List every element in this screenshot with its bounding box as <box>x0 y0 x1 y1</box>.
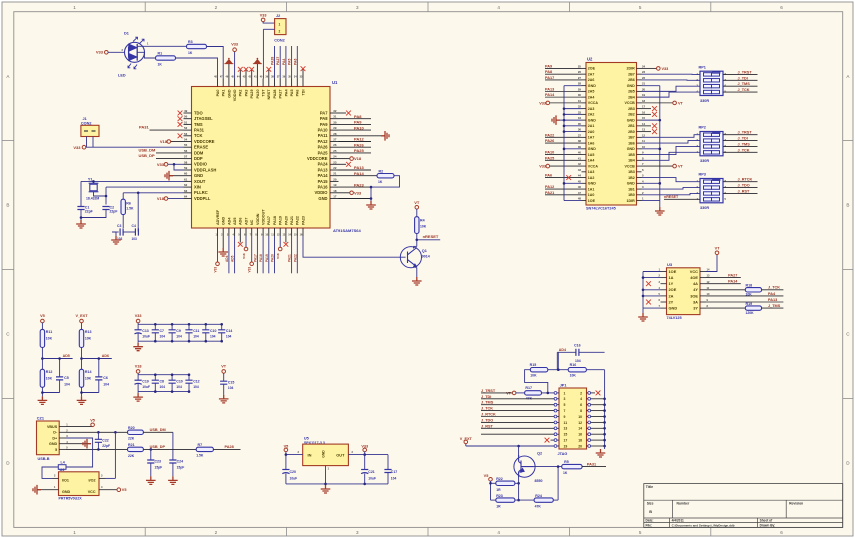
svg-text:GND: GND <box>588 118 596 122</box>
svg-text:31: 31 <box>578 99 582 103</box>
svg-text:53: 53 <box>184 132 188 136</box>
wire net PA13 <box>339 169 372 171</box>
svg-text:ADVREF: ADVREF <box>216 209 220 225</box>
svg-text:104: 104 <box>226 335 232 339</box>
svg-text:330R: 330R <box>700 206 709 210</box>
svg-text:25: 25 <box>333 149 337 153</box>
svg-text:PA17: PA17 <box>267 216 271 225</box>
svg-text:2OE: 2OE <box>669 287 677 292</box>
svg-text:J_TDI: J_TDI <box>738 76 748 80</box>
svg-text:TDI: TDI <box>301 90 305 96</box>
svg-text:DDP: DDP <box>194 156 203 161</box>
svg-text:29: 29 <box>578 87 582 91</box>
svg-text:PRTR5V0U2X: PRTR5V0U2X <box>59 497 83 501</box>
wire CZ1 row3 to L4 <box>66 438 93 467</box>
frame column ticks and labels <box>144 2 146 12</box>
ground at U1 PA11 <box>339 135 382 137</box>
wire net AD5 <box>41 348 43 370</box>
no-connect X at U1 PA7 <box>339 112 347 114</box>
svg-text:RP1: RP1 <box>699 65 706 69</box>
svg-text:2B5: 2B5 <box>628 90 635 94</box>
svg-text:C13: C13 <box>142 329 148 333</box>
svg-text:28: 28 <box>333 132 337 136</box>
resistor R18 10K <box>745 288 761 292</box>
wire stubs U1 top pins 11-15 nets PA28 PA27 PA4 PA5 PA6 <box>274 46 276 79</box>
svg-text:V33: V33 <box>73 145 81 150</box>
ground below Q1 <box>412 277 422 285</box>
svg-text:103: 103 <box>132 237 138 241</box>
wire CZ1 D+ row <box>66 448 128 450</box>
svg-text:10K: 10K <box>46 377 53 381</box>
svg-text:VT: VT <box>506 391 512 395</box>
wire net USB_DM at R20 <box>143 431 173 433</box>
svg-text:RP2: RP2 <box>699 126 706 130</box>
svg-text:GND: GND <box>588 84 596 88</box>
resistor R23 1R <box>491 499 496 501</box>
svg-text:22pF: 22pF <box>102 444 110 448</box>
svg-text:330R: 330R <box>700 99 709 103</box>
svg-text:1K: 1K <box>378 180 383 184</box>
svg-text:21: 21 <box>642 82 646 86</box>
svg-text:R7: R7 <box>198 443 203 447</box>
svg-text:19: 19 <box>642 93 646 97</box>
no-connect X U1 top pin 16 <box>302 70 304 79</box>
svg-text:2DIR: 2DIR <box>626 67 635 71</box>
svg-text:61: 61 <box>184 177 188 181</box>
power port V18 at U1 VDDCORE <box>171 141 184 143</box>
resistor R4 10K <box>415 217 419 234</box>
wire divider bottom <box>81 387 83 396</box>
svg-text:10uF: 10uF <box>290 476 298 480</box>
svg-text:D+: D+ <box>52 436 57 440</box>
svg-text:PA22: PA22 <box>293 254 297 262</box>
svg-text:3Y: 3Y <box>693 306 698 311</box>
svg-text:120K: 120K <box>746 311 755 315</box>
svg-text:1B3: 1B3 <box>628 170 635 174</box>
svg-text:6: 6 <box>580 403 582 407</box>
svg-text:47: 47 <box>578 191 582 195</box>
svg-text:12: 12 <box>642 133 646 137</box>
wire R16 right to JP1 rail <box>586 369 604 371</box>
wire net J_TCK <box>762 289 784 291</box>
wire net nRESET <box>416 234 418 247</box>
wires RP1 outputs <box>723 73 758 75</box>
svg-text:CON2: CON2 <box>274 39 285 43</box>
svg-text:GND: GND <box>222 216 226 225</box>
frame row ticks and labels <box>2 140 14 142</box>
svg-text:1A: 1A <box>669 275 674 280</box>
svg-text:PA4: PA4 <box>284 89 288 97</box>
svg-text:1K: 1K <box>188 51 193 55</box>
svg-text:VCCA: VCCA <box>588 164 599 168</box>
wire U1 pin7 to port V33 <box>251 236 253 262</box>
svg-text:9: 9 <box>564 415 566 419</box>
svg-text:GND: GND <box>588 182 596 186</box>
svg-text:R18: R18 <box>746 284 753 288</box>
svg-text:J_TDO: J_TDO <box>481 418 493 422</box>
svg-text:VDDOUT: VDDOUT <box>262 209 266 225</box>
svg-text:V_EXT: V_EXT <box>75 314 88 318</box>
svg-text:2A0: 2A0 <box>588 130 595 134</box>
svg-text:32: 32 <box>333 109 337 113</box>
svg-text:18.432M: 18.432M <box>86 196 99 200</box>
svg-text:22pF: 22pF <box>110 210 118 214</box>
svg-text:2A: 2A <box>669 293 674 298</box>
ground below U2 right rail <box>655 207 665 215</box>
svg-text:B: B <box>846 203 849 208</box>
svg-text:PA9: PA9 <box>354 120 362 125</box>
svg-text:Sheet of: Sheet of <box>760 519 774 523</box>
svg-text:V33: V33 <box>248 267 252 273</box>
no-connect X at U2 pin 43 <box>566 175 571 180</box>
svg-text:PA13: PA13 <box>354 165 364 170</box>
capacitor C17 104 <box>387 455 389 470</box>
svg-text:PA8: PA8 <box>545 70 552 74</box>
svg-text:4/4/2011: 4/4/2011 <box>672 519 684 523</box>
resistor R3 1K <box>187 44 207 48</box>
svg-text:PA14: PA14 <box>318 173 329 178</box>
wires nets PA12 PA26 PA25 <box>339 141 372 143</box>
no-connect X marks U2 right pins <box>642 108 652 110</box>
svg-text:50: 50 <box>184 115 188 119</box>
svg-text:1: 1 <box>279 23 281 27</box>
svg-text:3A: 3A <box>693 299 698 304</box>
svg-text:TDO: TDO <box>194 110 203 115</box>
svg-text:13: 13 <box>564 427 568 431</box>
svg-text:PA29: PA29 <box>250 90 254 99</box>
svg-text:VT: VT <box>414 200 420 205</box>
resistor R6 1.5K <box>121 199 125 214</box>
svg-text:C14: C14 <box>226 329 232 333</box>
wire R1 to U1 pin 47 <box>176 58 218 79</box>
svg-text:Q2: Q2 <box>537 451 542 455</box>
svg-text:PA27: PA27 <box>279 90 283 99</box>
svg-text:2A6: 2A6 <box>588 78 595 82</box>
svg-text:39: 39 <box>578 145 582 149</box>
svg-text:1Y: 1Y <box>669 281 674 286</box>
svg-text:VCCA: VCCA <box>588 101 599 105</box>
svg-text:104: 104 <box>160 385 166 389</box>
svg-text:GND: GND <box>627 147 635 151</box>
svg-text:Y1: Y1 <box>88 178 93 182</box>
svg-text:2A7: 2A7 <box>588 72 595 76</box>
wire U1 bottom pin 16 to Q1 base <box>303 236 406 257</box>
svg-text:GND: GND <box>318 196 327 201</box>
svg-text:9014: 9014 <box>422 255 430 259</box>
svg-text:V33: V33 <box>260 13 267 17</box>
wire net PA4 at U3 3OE <box>706 295 783 297</box>
svg-text:16: 16 <box>642 110 646 114</box>
capacitor C9 104 <box>171 324 173 329</box>
svg-text:4OE: 4OE <box>690 275 698 280</box>
svg-text:AT91SAM7S64: AT91SAM7S64 <box>333 228 361 233</box>
svg-text:PA27: PA27 <box>728 274 737 278</box>
resistor R20 22K <box>128 430 144 434</box>
wire R17 to JP1 pin1 <box>542 392 555 394</box>
capacitor C19 10uF <box>137 375 139 380</box>
svg-text:V33: V33 <box>361 444 368 448</box>
svg-text:41: 41 <box>578 156 582 160</box>
svg-text:1: 1 <box>73 530 76 535</box>
svg-text:10uF: 10uF <box>142 335 150 339</box>
svg-text:J_TCK: J_TCK <box>738 88 750 92</box>
svg-text:1R: 1R <box>496 488 501 492</box>
svg-text:USB_DM: USB_DM <box>150 428 166 432</box>
svg-text:22: 22 <box>333 166 337 170</box>
power port V33 at U1 VDDIO pin 18 <box>339 192 351 194</box>
svg-text:PLLRC: PLLRC <box>194 190 208 195</box>
wire U4 I/O2 up to USB_DM row <box>105 477 115 479</box>
U2 left ground rail <box>563 86 565 201</box>
svg-text:VT: VT <box>678 165 684 169</box>
wire net PA14 to R2 <box>339 175 378 177</box>
svg-text:J_RST: J_RST <box>481 424 493 428</box>
svg-text:R3: R3 <box>188 40 193 44</box>
capacitor C2 22pF <box>102 207 109 210</box>
svg-text:104: 104 <box>176 385 182 389</box>
svg-text:R23: R23 <box>496 494 503 498</box>
svg-text:IN: IN <box>308 452 312 457</box>
svg-text:27: 27 <box>578 76 582 80</box>
svg-text:5: 5 <box>55 448 57 452</box>
JP1 right rail to even pins <box>604 370 606 446</box>
svg-text:V5: V5 <box>40 314 45 318</box>
op-amp U1 body AT91SAM7S64 <box>192 87 331 229</box>
svg-text:33: 33 <box>578 110 582 114</box>
svg-text:24: 24 <box>642 65 646 69</box>
svg-text:2B6: 2B6 <box>628 78 635 82</box>
svg-text:PA17: PA17 <box>253 254 257 262</box>
svg-text:PA1: PA1 <box>222 90 226 97</box>
ground at U4 GND <box>37 489 53 491</box>
svg-text:PA5: PA5 <box>288 59 292 65</box>
svg-text:3: 3 <box>356 530 359 535</box>
resistor R14 10K <box>79 369 83 387</box>
wire net PA27 <box>706 277 741 279</box>
svg-text:Number: Number <box>677 501 690 505</box>
U1 right pin stubs with numbers <box>330 112 339 114</box>
svg-text:NRST: NRST <box>267 89 271 100</box>
svg-text:J_RTCK: J_RTCK <box>481 413 496 417</box>
wire Q1 collector <box>413 246 415 248</box>
svg-text:AD5: AD5 <box>231 255 235 262</box>
no-connect X U1 top pin 10 <box>268 70 270 79</box>
svg-text:PA2: PA2 <box>239 90 243 97</box>
svg-text:PA26: PA26 <box>354 142 364 147</box>
svg-text:OUT: OUT <box>336 452 345 457</box>
svg-text:Revision: Revision <box>789 501 803 505</box>
svg-text:VDDCORE: VDDCORE <box>307 156 328 161</box>
svg-text:PA6: PA6 <box>545 174 552 178</box>
svg-text:J_TDO: J_TDO <box>738 184 750 188</box>
wire CZ1 D- row <box>66 431 128 433</box>
svg-text:1B6: 1B6 <box>628 141 635 145</box>
power port VT at U2 VCCB pin 18 <box>642 102 673 104</box>
svg-text:C15: C15 <box>228 380 234 384</box>
svg-text:VCCB: VCCB <box>625 164 636 168</box>
svg-text:R1: R1 <box>158 52 163 56</box>
resistor R1 1K <box>156 56 176 60</box>
svg-text:AD4: AD4 <box>225 255 229 262</box>
wire USB_DP down to C23 <box>150 449 152 460</box>
svg-text:15: 15 <box>642 116 646 120</box>
capacitor C23 15pF <box>147 460 154 463</box>
svg-text:4: 4 <box>497 530 500 535</box>
wire net PA23 <box>339 186 372 188</box>
svg-text:2A2: 2A2 <box>588 113 595 117</box>
svg-text:31: 31 <box>333 115 337 119</box>
svg-text:10K: 10K <box>530 373 537 377</box>
svg-text:1A2: 1A2 <box>588 176 595 180</box>
svg-text:57: 57 <box>184 155 188 159</box>
svg-text:1DIR: 1DIR <box>626 199 635 203</box>
wire U5 ground rail <box>286 483 388 485</box>
power port VT at U3 VCC <box>706 255 717 272</box>
svg-text:20: 20 <box>333 177 337 181</box>
svg-text:GND: GND <box>627 182 635 186</box>
svg-text:43: 43 <box>578 168 582 172</box>
svg-text:R6: R6 <box>126 201 131 205</box>
svg-text:62: 62 <box>184 183 188 187</box>
wires RP2 inputs from U2 <box>642 135 701 138</box>
capacitor C10 104 <box>205 324 207 329</box>
svg-text:V33: V33 <box>135 314 142 318</box>
capacitor C7 104 <box>154 324 156 329</box>
ground below C3 C4 <box>112 232 116 236</box>
svg-text:VDDCORE: VDDCORE <box>194 139 215 144</box>
svg-text:2A1: 2A1 <box>588 124 595 128</box>
svg-text:37: 37 <box>578 133 582 137</box>
svg-text:Title: Title <box>646 485 653 489</box>
resistor R17 47K <box>525 391 542 395</box>
svg-text:C22: C22 <box>102 438 108 442</box>
svg-text:104: 104 <box>193 335 199 339</box>
ground below C24 <box>168 476 178 484</box>
svg-text:GND: GND <box>62 490 71 494</box>
svg-text:PA10: PA10 <box>545 151 554 155</box>
svg-text:PA31: PA31 <box>587 462 596 466</box>
svg-text:J2: J2 <box>276 14 280 18</box>
ground at U1 pin 2 <box>222 236 224 248</box>
power port V18 at U1 VDDCORE pin 24 <box>339 158 351 160</box>
power port V18 U1 pin 6 <box>245 236 247 247</box>
svg-text:26: 26 <box>578 70 582 74</box>
wires RP2 outputs <box>723 134 758 136</box>
svg-text:PA24: PA24 <box>318 162 329 167</box>
capacitor C20 10uF <box>285 455 287 470</box>
svg-text:25: 25 <box>578 65 582 69</box>
svg-text:15: 15 <box>564 433 568 437</box>
svg-text:1K: 1K <box>563 471 568 475</box>
svg-text:1OE: 1OE <box>669 269 677 274</box>
svg-text:PA7: PA7 <box>320 110 328 115</box>
ground below U1 right <box>366 201 376 209</box>
svg-text:4Y: 4Y <box>693 287 698 292</box>
svg-text:VCC: VCC <box>690 269 698 274</box>
svg-text:7: 7 <box>564 409 566 413</box>
svg-text:C19: C19 <box>142 379 148 383</box>
wire R2 loop to PA16 row <box>371 176 400 187</box>
resistor R19 120K <box>745 306 761 310</box>
U3 left ground rail <box>642 272 644 309</box>
svg-text:J_TCK: J_TCK <box>768 286 780 290</box>
svg-text:R20: R20 <box>128 426 135 430</box>
svg-text:R16: R16 <box>570 363 577 367</box>
wire net PA28 at R7 <box>213 448 240 450</box>
svg-text:PA10: PA10 <box>354 125 364 130</box>
wire net PA31 at R5 <box>582 466 606 468</box>
svg-text:GND: GND <box>669 306 678 311</box>
power port V5 at CZ1 VBUS <box>66 426 93 428</box>
svg-text:V18: V18 <box>354 156 362 161</box>
svg-text:2Y: 2Y <box>669 299 674 304</box>
svg-text:Size: Size <box>647 501 654 505</box>
wire U1 top pin 9 to connector J2 <box>262 29 264 78</box>
power port V33 at U2 VCCA pin 42 <box>550 165 582 167</box>
power flag on U1 top pin 3 <box>228 64 230 79</box>
wire J2 pin2 down to U1 <box>263 28 274 30</box>
svg-text:PA30: PA30 <box>256 90 260 99</box>
capacitor C3 103 <box>112 231 119 233</box>
svg-text:R13: R13 <box>85 330 92 334</box>
svg-text:2B4: 2B4 <box>628 95 635 99</box>
svg-text:V18: V18 <box>242 253 246 259</box>
svg-text:PA31: PA31 <box>139 124 149 129</box>
svg-text:2A3: 2A3 <box>588 107 595 111</box>
svg-text:VDDIO: VDDIO <box>233 89 237 101</box>
wire at JP1 pin 15 <box>481 433 554 435</box>
svg-text:TCK: TCK <box>194 133 202 138</box>
capacitor C16 104 with net AD4 <box>557 351 576 353</box>
svg-text:1A5: 1A5 <box>588 153 595 157</box>
svg-text:4A: 4A <box>693 281 698 286</box>
wire U1 pin1 to port V33 <box>217 236 219 262</box>
svg-text:1B7: 1B7 <box>628 136 635 140</box>
svg-text:GND: GND <box>627 118 635 122</box>
svg-text:46: 46 <box>578 185 582 189</box>
svg-text:PA3: PA3 <box>244 90 248 97</box>
svg-text:PA11: PA11 <box>318 133 328 138</box>
wire LED pin1 to R3 <box>137 45 186 47</box>
wire R15 R16 junction to C16 <box>548 369 568 371</box>
svg-text:PA12: PA12 <box>318 139 329 144</box>
svg-text:20: 20 <box>642 87 646 91</box>
svg-text:I/O2: I/O2 <box>89 478 96 482</box>
svg-text:64: 64 <box>184 195 188 199</box>
ground below capacitor bank <box>137 392 139 394</box>
svg-text:2B1: 2B1 <box>628 124 635 128</box>
svg-text:USB-B: USB-B <box>38 457 50 461</box>
wire net PA31 <box>150 129 184 131</box>
svg-text:18: 18 <box>333 189 337 193</box>
capacitor C15 104 <box>220 381 227 384</box>
svg-text:11: 11 <box>642 139 645 143</box>
svg-text:18: 18 <box>642 99 646 103</box>
svg-text:PA20: PA20 <box>284 216 288 225</box>
svg-text:V33: V33 <box>354 190 362 195</box>
svg-text:1.5K: 1.5K <box>196 453 204 457</box>
svg-text:PA6: PA6 <box>296 90 300 97</box>
op-amp U3 body 74LV125 <box>667 268 701 315</box>
wire R24 to emitter junction <box>553 499 558 501</box>
svg-text:U3: U3 <box>667 262 673 267</box>
svg-text:AD5: AD5 <box>63 354 70 358</box>
svg-text:CZ1: CZ1 <box>37 417 44 421</box>
svg-text:C7: C7 <box>160 329 165 333</box>
capacitor C10 104 <box>171 375 173 380</box>
power port V33 at U2 VCCA pin 31 <box>550 102 582 104</box>
svg-text:1A4: 1A4 <box>588 159 595 163</box>
